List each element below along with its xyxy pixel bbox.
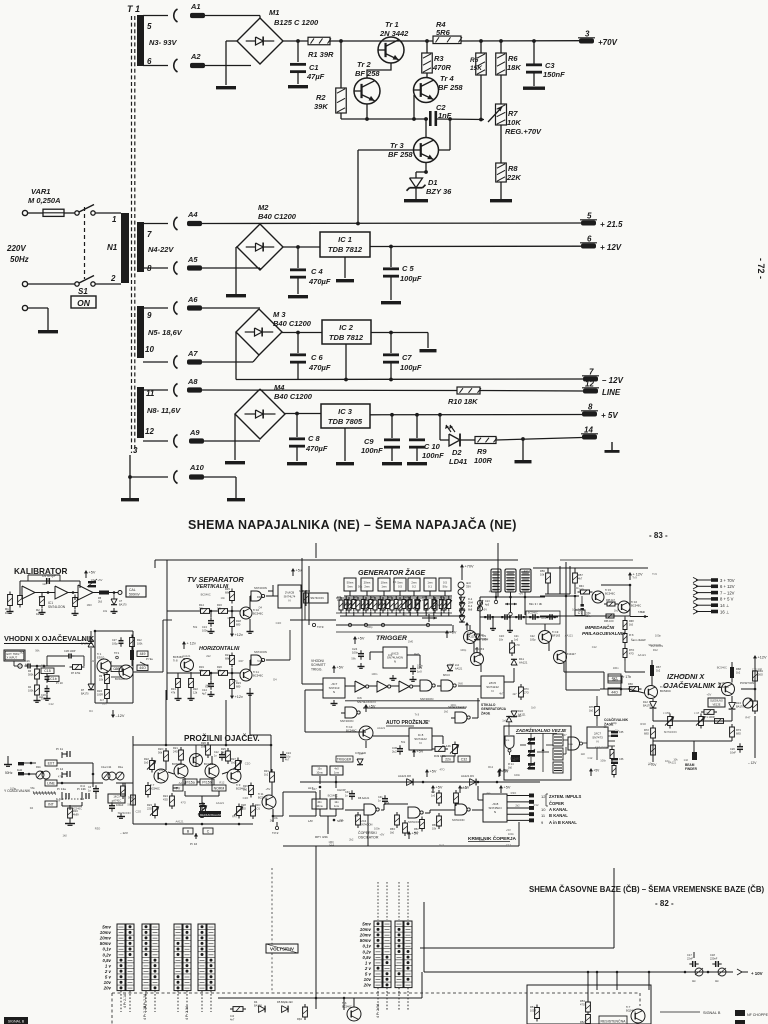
prozilni IN box — [173, 785, 183, 791]
schmitt IC7 box — [323, 678, 345, 698]
svg-text:R3O: R3O — [95, 827, 101, 831]
svg-text:D5 BAβE 2k3: D5 BAβE 2k3 — [277, 1000, 293, 1004]
svg-text:100n: 100n — [227, 616, 233, 620]
switch strip group 2a — [142, 924, 150, 991]
vhodni diode D7 — [88, 684, 94, 690]
svg-text:AA121: AA121 — [565, 633, 574, 637]
svg-text:1M0: 1M0 — [408, 639, 414, 643]
trigger row bottom wire — [336, 612, 452, 614]
svg-text:R12: R12 — [39, 595, 44, 599]
svg-text:4Ω: 4Ω — [692, 979, 695, 983]
switch strip group 1b — [126, 924, 134, 991]
y block LINE box — [45, 780, 57, 786]
filter cap 1 — [485, 616, 488, 618]
prozilni NORM box — [212, 785, 226, 791]
vhodni R4 100k — [36, 682, 38, 685]
svg-text:47O: 47O — [629, 652, 634, 655]
svg-text:8 + 5 V: 8 + 5 V — [720, 597, 734, 602]
svg-text:2k2: 2k2 — [515, 804, 520, 808]
svg-text:SLEDILNO: SLEDILNO — [710, 699, 723, 703]
ground R8 — [490, 199, 512, 202]
svg-text:10k: 10k — [217, 607, 222, 611]
svg-text:1k0: 1k0 — [589, 709, 594, 712]
filter grounds — [492, 617, 494, 625]
svg-text:R12: R12 — [488, 765, 493, 769]
svg-text:A2: A2 — [190, 52, 201, 61]
stikalo zener — [511, 659, 517, 665]
svg-text:4k7: 4k7 — [578, 577, 583, 581]
svg-text:10k: 10k — [388, 653, 393, 657]
wire stub to ground — [522, 439, 524, 460]
connector A2 — [174, 59, 178, 72]
svg-text:+70V: +70V — [598, 38, 618, 47]
vhodni R13 black res — [130, 650, 134, 660]
schmitt +5V — [333, 668, 335, 673]
wire lower switch to primary — [95, 283, 121, 285]
y block INT box — [45, 801, 57, 807]
vhodni C15 trim — [41, 668, 54, 674]
svg-text:βICE: βICE — [568, 744, 573, 746]
zadrzevalno input diode — [506, 716, 512, 721]
ojacevalnik zage wires — [596, 696, 598, 706]
switch strip group 4b — [207, 924, 215, 991]
node Tr2 feed junction — [339, 39, 343, 43]
svg-text:- 72 -: - 72 - — [756, 258, 766, 279]
svg-text:D2: D2 — [452, 448, 462, 457]
bridge rectifier M3 — [236, 309, 282, 355]
svg-text:56k: 56k — [351, 656, 356, 660]
svg-text:10ms: 10ms — [316, 804, 323, 808]
svg-text:L/R: L/R — [308, 819, 314, 823]
trigger long wire B — [363, 707, 466, 709]
box res R53 — [587, 999, 589, 1002]
svg-text:R73: R73 — [736, 728, 741, 732]
svg-text:ZADRŽEVALNO VEZJE: ZADRŽEVALNO VEZJE — [515, 726, 567, 733]
svg-text:1 v: 1 v — [365, 960, 372, 965]
svg-text:2k2: 2k2 — [20, 650, 25, 654]
node C3 junction — [532, 39, 536, 43]
izhodni +12V arrow — [754, 658, 756, 663]
svg-text:ŽAGE: ŽAGE — [481, 710, 491, 715]
svg-text:R24: R24 — [163, 794, 168, 798]
y block dotted link — [56, 798, 84, 800]
svg-text:44O: 44O — [611, 690, 618, 694]
switch S1 upper blade — [79, 205, 94, 213]
coperski wires mid — [345, 809, 364, 811]
svg-text:EXT. TRIG: EXT. TRIG — [7, 652, 20, 656]
svg-text:68k: 68k — [225, 591, 230, 595]
svg-text:100R: 100R — [97, 693, 103, 696]
svg-text:100µF: 100µF — [400, 363, 422, 372]
wire M3 output — [282, 332, 322, 334]
svg-text:B40 C1200: B40 C1200 — [274, 392, 313, 401]
svg-text:IC 1: IC 1 — [338, 235, 352, 244]
tv sep res RV3 — [231, 589, 233, 592]
ground winding 3 — [121, 498, 139, 501]
kalibrator feedback wire — [19, 588, 21, 593]
svg-text:C24: C24 — [286, 751, 291, 755]
svg-text:R5: R5 — [470, 57, 479, 64]
svg-text:100p: 100p — [417, 664, 423, 668]
vhodni R9 resistor — [106, 672, 108, 675]
svg-text:R12: R12 — [534, 803, 539, 807]
wire A8 arc lead — [143, 389, 168, 391]
svg-text:C 10: C 10 — [424, 442, 441, 451]
svg-text:+70V: +70V — [465, 565, 474, 569]
svg-text:+5V: +5V — [98, 578, 103, 582]
svg-text:100µF: 100µF — [400, 274, 422, 283]
timing trimmer 2 — [362, 597, 364, 600]
prozilni feed verticals — [165, 690, 167, 745]
zadrzevalno cap 2 — [528, 750, 535, 753]
svg-text:4 Pr 2-2B: 4 Pr 2-2B — [143, 1005, 147, 1020]
prozilni transistor T3 — [205, 764, 219, 778]
svg-text:N4-22V: N4-22V — [148, 245, 174, 254]
svg-text:Tr.1: Tr.1 — [97, 652, 102, 656]
svg-text:LD41: LD41 — [449, 457, 467, 466]
impedancni column wire — [624, 617, 626, 621]
svg-text:1n: 1n — [378, 799, 381, 802]
trigger grounds — [392, 675, 394, 679]
vhodni diode D6 — [88, 641, 94, 647]
svg-text:½IC2: ½IC2 — [257, 659, 264, 663]
izhodni R 100R — [701, 711, 704, 713]
resistor R2 — [336, 88, 347, 113]
svg-text:BA170: BA170 — [119, 603, 127, 606]
earth input terminal — [22, 305, 27, 310]
ground A10 — [227, 498, 245, 501]
svg-text:0.2: 0.2 — [412, 585, 416, 589]
krmilnik IC8 box — [483, 794, 507, 822]
svg-text:ON: ON — [77, 298, 91, 308]
svg-text:11: 11 — [541, 813, 546, 818]
svg-text:3 + 70V: 3 + 70V — [720, 578, 735, 583]
zadrzevalno cap wires — [530, 744, 532, 750]
svg-text:M 0,250A: M 0,250A — [28, 196, 61, 205]
svg-text:10n: 10n — [572, 608, 577, 612]
svg-text:R47: R47 — [745, 715, 750, 719]
izhodni R66 resistor — [627, 688, 630, 690]
svg-text:56k: 56k — [158, 751, 163, 755]
timing trimmer 5 — [409, 597, 411, 600]
stack left vertical — [479, 597, 481, 640]
svg-text:1n0: 1n0 — [449, 663, 454, 667]
prozilni out cap — [282, 751, 284, 754]
svg-text:1n0: 1n0 — [431, 794, 436, 797]
svg-text:2ms: 2ms — [364, 585, 370, 589]
middle-bottom connection vertical — [315, 846, 317, 998]
zadrzevalno +5V arrows — [499, 771, 501, 776]
svg-text:C 8: C 8 — [308, 434, 321, 443]
+10V terminal — [737, 969, 742, 975]
trimmer cap B — [718, 968, 726, 976]
svg-text:TDB 7812: TDB 7812 — [329, 333, 364, 342]
svg-text:22n: 22n — [445, 757, 451, 761]
node Tr3 right — [448, 117, 452, 121]
coperski main bus wire — [300, 781, 540, 783]
svg-text:D4: D4 — [355, 814, 359, 818]
svg-text:4 Pr 2-3A: 4 Pr 2-3A — [185, 1005, 189, 1020]
wire A7 to bridge M3 — [143, 361, 168, 363]
svg-text:2: 2 — [110, 274, 116, 283]
svg-text:2u2: 2u2 — [392, 750, 397, 754]
bottom transistor Tr6 — [347, 1007, 361, 1021]
svg-text:IZHODNI X: IZHODNI X — [667, 672, 705, 681]
svg-text:AA121: AA121 — [175, 820, 184, 824]
svg-text:C2O: C2O — [243, 796, 249, 800]
svg-text:10n: 10n — [665, 759, 670, 763]
op-amp 2 (kalibrator) — [55, 586, 68, 599]
wire R8 to ground — [500, 182, 502, 199]
svg-text:+5V: +5V — [502, 770, 509, 774]
svg-text:10k: 10k — [540, 573, 545, 577]
wire Tr3 collector — [425, 119, 427, 138]
svg-text:C3: C3 — [545, 61, 555, 70]
svg-text:+5V: +5V — [594, 769, 601, 773]
izhodni collector res B — [730, 667, 734, 678]
prozilni trimmer 2 — [237, 758, 239, 761]
trigger input resistor row — [340, 597, 342, 600]
svg-text:10n: 10n — [435, 603, 440, 607]
svg-text:BA170: BA170 — [736, 705, 744, 709]
izhodni trimmer row 2 — [700, 714, 702, 717]
svg-text:4 Pr 2-5A: 4 Pr 2-5A — [376, 1003, 380, 1018]
switch strip group 6 — [395, 921, 403, 988]
svg-text:AA121: AA121 — [638, 653, 647, 657]
node C1 junction — [296, 39, 300, 43]
svg-text:220nF: 220nF — [710, 957, 718, 961]
svg-text:1k0: 1k0 — [39, 695, 44, 699]
wire R2 to bus — [340, 113, 342, 119]
svg-text:R47: R47 — [414, 652, 419, 656]
input terminal circle — [18, 664, 22, 668]
switch strip group 3b — [183, 924, 191, 991]
impedancni R65 resistor — [604, 603, 607, 605]
svg-text:8/IC3: 8/IC3 — [443, 673, 450, 677]
svg-text:1k0: 1k0 — [231, 761, 236, 765]
svg-text:+5V: +5V — [379, 833, 384, 837]
tv sep res RV2 — [216, 610, 219, 612]
svg-text:470R: 470R — [432, 63, 452, 72]
svg-text:4 Pr 2-1A: 4 Pr 2-1A — [123, 993, 127, 1008]
svg-text:× 17O: × 17O — [663, 711, 670, 715]
svg-text:R65 4k7: R65 4k7 — [606, 599, 616, 602]
svg-text:Pr15a: Pr15a — [185, 780, 194, 784]
kalibrator wire stubs — [9, 593, 11, 595]
tv sep res RH3 — [231, 653, 233, 656]
svg-text:R12: R12 — [219, 780, 224, 784]
izhodni beam finder terminal — [693, 741, 695, 752]
svg-text:1ms: 1ms — [381, 585, 387, 589]
svg-text:R12: R12 — [653, 648, 658, 652]
impedancni input wire — [540, 595, 579, 597]
impedancni +12V arrow — [629, 575, 631, 580]
svg-text:Rβ3: Rβ3 — [297, 1017, 302, 1021]
svg-text:22O: 22O — [147, 807, 152, 811]
svg-text:M1: M1 — [269, 8, 279, 17]
tv sep left +12V — [183, 644, 185, 649]
svg-text:6: 6 — [147, 57, 152, 66]
wire IC2 ground pin — [345, 344, 347, 380]
ground C3 — [523, 87, 545, 90]
bottom long wire 972 — [424, 971, 733, 973]
wire A9 to bridge M4 — [143, 440, 168, 442]
connector A6 — [174, 302, 178, 315]
vhodni R3 500k — [36, 666, 38, 669]
wire D2 anode — [439, 415, 441, 440]
svg-text:VAR1: VAR1 — [31, 187, 50, 196]
svg-text:1k2: 1k2 — [656, 669, 661, 673]
svg-text:R20: R20 — [217, 665, 222, 669]
svg-text:50Hz: 50Hz — [5, 771, 13, 775]
svg-text:N8- 11,6V: N8- 11,6V — [147, 406, 181, 415]
svg-text:10ms: 10ms — [316, 770, 323, 774]
svg-text:R26: R26 — [201, 741, 206, 745]
svg-text:BF163: BF163 — [552, 634, 561, 638]
svg-text:10n: 10n — [221, 596, 226, 600]
kalibrator ground row — [9, 608, 11, 612]
svg-text:BC546C: BC546C — [510, 756, 520, 760]
svg-text:R19: R19 — [199, 665, 204, 669]
impedancni res column R68 — [624, 618, 626, 621]
svg-text:D12: D12 — [643, 700, 648, 704]
node C8 junction — [295, 412, 299, 416]
impedancni R66 resistor — [603, 615, 606, 617]
svg-text:R53: R53 — [580, 999, 585, 1003]
svg-text:9: 9 — [147, 311, 152, 320]
svg-text:BC546C: BC546C — [342, 1005, 352, 1009]
prozilni transistor T2 — [174, 764, 188, 778]
svg-text:100k: 100k — [137, 642, 143, 645]
schmitt input wires — [305, 683, 323, 685]
svg-text:M4: M4 — [274, 383, 285, 392]
impedancni C23 cap — [581, 604, 584, 607]
wire A1 to bridge M1 — [143, 15, 168, 17]
svg-text:2k2: 2k2 — [349, 838, 354, 842]
bottom circuit wire main — [218, 997, 422, 999]
izhodni SLEDILNO box — [708, 698, 725, 707]
svg-text:2N 3442: 2N 3442 — [379, 29, 409, 38]
svg-text:+5V: +5V — [430, 770, 437, 774]
svg-text:7 – 12V: 7 – 12V — [720, 590, 735, 595]
svg-text:100uF: 100uF — [116, 803, 124, 807]
svg-text:1/IC3: 1/IC3 — [113, 795, 120, 799]
svg-text:C2O: C2O — [17, 664, 23, 668]
wire +12V rail — [370, 245, 581, 247]
wire A2 to bridge M1 — [143, 65, 168, 67]
node ground stub — [521, 437, 525, 441]
earth symbol terminal 14 — [611, 442, 613, 450]
box RESISTENCNA label — [599, 1016, 627, 1024]
capacitor C8 — [296, 414, 298, 438]
prozilni res R24 — [171, 793, 173, 796]
svg-text:22K: 22K — [506, 173, 521, 182]
auto prozenje transistor Tr10 — [359, 726, 373, 740]
svg-text:100p: 100p — [112, 642, 118, 645]
resistor R3 kalibrator — [41, 594, 43, 597]
svg-text:20mv: 20mv — [99, 936, 112, 941]
filter row wire — [480, 616, 558, 618]
mid row box — [306, 593, 328, 603]
switch S1 lower contact — [75, 282, 79, 286]
SIGNAL B box bottom left — [4, 1017, 28, 1024]
svg-text:SIGNAL B: SIGNAL B — [703, 1011, 721, 1015]
switch S1 lower blade — [79, 276, 94, 284]
timing trimmer 7 — [440, 597, 442, 600]
svg-text:10nF: 10nF — [730, 751, 736, 755]
svg-text:Tr 3: Tr 3 — [390, 141, 404, 150]
svg-text:SN74OON: SN74OON — [408, 820, 421, 824]
supply arrow 8 — [693, 596, 698, 601]
coperski res r5 — [438, 813, 440, 816]
svg-text:D4: D4 — [89, 709, 93, 713]
svg-text:+5V: +5V — [436, 786, 443, 790]
capacitor C3 — [533, 41, 535, 64]
bottom diode D5 — [282, 1006, 288, 1013]
mid verticals — [301, 558, 303, 684]
svg-text:100p: 100p — [655, 633, 661, 637]
impedancni R64 resistor — [578, 591, 581, 593]
cap C18 — [712, 963, 715, 965]
box res R52 — [587, 1012, 589, 1015]
svg-text:C15: C15 — [44, 669, 50, 673]
coperski box row 1a — [312, 766, 327, 775]
svg-text:+12ν: +12ν — [235, 695, 243, 699]
svg-text:A10: A10 — [189, 463, 205, 472]
svg-text:47O: 47O — [439, 767, 444, 771]
svg-text:1k0: 1k0 — [581, 752, 586, 756]
svg-text:PRILAGOJEVALNIK: PRILAGOJEVALNIK — [582, 631, 626, 636]
wire control bus — [341, 118, 428, 120]
svg-text:RPY 3/2b: RPY 3/2b — [315, 835, 328, 839]
transformer secondary winding N8 — [137, 387, 144, 438]
trigger C25 cap — [412, 665, 414, 668]
wire IC2 output — [371, 332, 428, 334]
izhodni bottom res — [652, 742, 654, 745]
trigger diode 3 — [459, 610, 465, 615]
izhodni transistor TrB — [722, 683, 735, 696]
timing box 4 — [394, 578, 406, 591]
svg-text:100n: 100n — [374, 826, 380, 830]
svg-text:A KANAL: A KANAL — [549, 807, 568, 812]
resistor R8 — [496, 163, 507, 182]
y block P16 res — [69, 805, 71, 808]
coperski bottom wire — [368, 845, 519, 847]
vhodni grounds left — [36, 697, 38, 701]
svg-text:IC 3: IC 3 — [338, 407, 353, 416]
svg-text:BZY 36: BZY 36 — [426, 187, 452, 196]
zadrzevalno IC7 box — [587, 727, 608, 748]
svg-text:R3: R3 — [434, 54, 444, 63]
switch ON box — [71, 296, 96, 308]
y block EXT box — [45, 760, 57, 766]
svg-text:R12: R12 — [80, 784, 85, 788]
resistor R9 — [475, 437, 496, 444]
svg-text:D4: D4 — [254, 1000, 258, 1004]
svg-text:1ms: 1ms — [334, 804, 340, 808]
supply arrow 7 — [693, 590, 698, 595]
wire +21.5 rail — [143, 223, 168, 225]
impedancni net boxes — [608, 676, 622, 683]
resistor R10 — [457, 387, 480, 394]
svg-text:A1: A1 — [190, 2, 201, 11]
switch strip group 2b — [151, 924, 159, 991]
svg-text:10k: 10k — [91, 578, 96, 582]
svg-text:C2O: C2O — [232, 679, 238, 683]
svg-text:39K: 39K — [314, 102, 328, 111]
y block cap C2 — [111, 802, 113, 805]
middle frame top border — [155, 559, 518, 561]
